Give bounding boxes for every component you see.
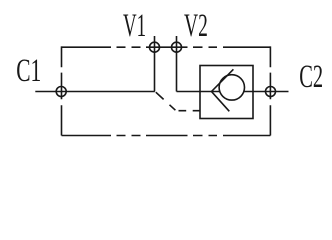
svg-text:C1: C1 bbox=[16, 53, 41, 90]
check valve CV1 body bbox=[200, 66, 253, 119]
enclosure right edge (dashed boundary) bbox=[269, 46, 271, 135]
pilot line (dashed) bbox=[156, 92, 200, 111]
enclosure bottom edge (dashed boundary) bbox=[62, 135, 271, 137]
check valve CV1 ball bbox=[219, 75, 244, 100]
wire V1 vertical bbox=[154, 36, 156, 92]
svg-text:C2: C2 bbox=[299, 58, 323, 94]
port C1 bbox=[56, 87, 66, 97]
port V2 bbox=[172, 42, 182, 52]
check valve CV1 seat bbox=[212, 69, 234, 111]
port C2 bbox=[266, 87, 276, 97]
wire V2 vertical bbox=[176, 36, 178, 92]
enclosure top edge (dashed boundary) bbox=[62, 46, 271, 48]
wire V2 to check valve and C2 outlet bbox=[177, 91, 289, 93]
enclosure left edge (dashed boundary) bbox=[61, 46, 63, 135]
wire C1 main line bbox=[35, 91, 155, 93]
port V1 bbox=[150, 42, 160, 52]
svg-text:V2: V2 bbox=[184, 7, 208, 44]
svg-text:V1: V1 bbox=[123, 7, 146, 44]
